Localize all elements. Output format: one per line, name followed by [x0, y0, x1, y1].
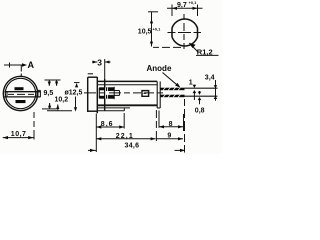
front view slot inner verticals — [7, 92, 36, 97]
side view step vertical at 8,6 — [123, 108, 125, 111]
front view upper dark pad — [15, 87, 24, 90]
dim 9,5/10,2 up arrows — [50, 103, 58, 110]
side view end cap double line — [157, 81, 160, 108]
side view body lower line 2 — [97, 107, 130, 109]
clip window rectangle — [142, 91, 149, 97]
dim 34,6 — [88, 149, 185, 152]
side view flange — [97, 77, 104, 113]
svg-text:8: 8 — [169, 121, 173, 128]
dim 8,6 — [96, 113, 124, 129]
radius leader R1,2 — [189, 43, 219, 56]
projection line A (top) — [45, 79, 61, 81]
dim diameter 12,5 — [74, 83, 80, 112]
svg-text:Anode: Anode — [147, 64, 172, 73]
front view slot chord bottom — [4, 96, 40, 98]
front view outer circle — [3, 76, 37, 110]
svg-text:A: A — [28, 60, 35, 70]
upper lead — [160, 88, 184, 91]
dim 1 (upper lead) — [193, 85, 197, 100]
svg-text:0,8: 0,8 — [195, 108, 205, 115]
svg-text:3,4: 3,4 — [205, 74, 215, 81]
lower lead extension line — [185, 95, 218, 97]
front view center dash line — [8, 93, 34, 95]
front view key tab — [38, 90, 41, 97]
dim 3 (flange thickness) — [92, 59, 111, 79]
LED inside: filled bars — [99, 88, 114, 91]
svg-text:34,6: 34,6 — [125, 143, 140, 150]
anode leader — [163, 73, 179, 87]
cutout horizontal centerline — [168, 32, 202, 34]
dim 10,7 — [3, 112, 34, 140]
lead hatch marks — [163, 87, 181, 97]
lower lead — [160, 95, 184, 98]
svg-text:+0,1: +0,1 — [153, 27, 162, 32]
svg-text:3: 3 — [97, 57, 102, 67]
dim 10,5 — [148, 12, 181, 48]
svg-text:1: 1 — [189, 80, 193, 87]
cutout view circle with flats — [172, 19, 198, 46]
dim 8 — [159, 111, 184, 132]
side view bezel ring — [88, 77, 98, 112]
bottom dims left extension line — [95, 114, 97, 153]
section arrow A — [4, 63, 27, 68]
svg-text:10,5: 10,5 — [138, 29, 152, 36]
side view body top line — [97, 80, 157, 82]
cutout vertical centerline — [183, 14, 185, 49]
dim 22,1 — [96, 110, 156, 141]
lead tip extension verticals — [184, 99, 186, 153]
svg-text:10,2: 10,2 — [55, 96, 69, 103]
front view inner circle — [5, 78, 35, 108]
svg-text:ø12,5: ø12,5 — [65, 89, 83, 96]
dim 3,4 (lead spacing) — [214, 80, 218, 101]
side view body second top line — [97, 84, 157, 86]
svg-text:9,5: 9,5 — [44, 90, 54, 97]
side view body lower line 3 — [97, 110, 124, 112]
svg-text:22,1: 22,1 — [116, 133, 134, 140]
svg-text:9,7: 9,7 — [177, 2, 187, 9]
dim 9,7 — [167, 5, 203, 17]
svg-text:10,7: 10,7 — [11, 131, 27, 138]
dim 9 — [156, 137, 183, 140]
upper lead extension line — [185, 87, 218, 89]
front view slot chord top — [5, 91, 41, 93]
svg-text:9: 9 — [167, 132, 171, 139]
side view bezel front top tick — [88, 73, 93, 75]
side view center line — [84, 92, 163, 94]
svg-text:8,6: 8,6 — [101, 121, 114, 128]
dim 9,5 down arrows — [49, 80, 56, 86]
svg-text:R1,2: R1,2 — [197, 48, 213, 57]
front view lower dark pad — [16, 100, 26, 103]
LED inside: dome — [99, 87, 119, 99]
svg-text:+0,1: +0,1 — [189, 0, 198, 5]
side view body bottom thick line — [97, 104, 157, 106]
dim 0,8 (lower lead) — [198, 91, 202, 104]
projection line C (bottom right) — [47, 110, 72, 112]
projection line B (bottom left) — [42, 108, 57, 110]
front view vertical centerline stub — [20, 65, 22, 77]
